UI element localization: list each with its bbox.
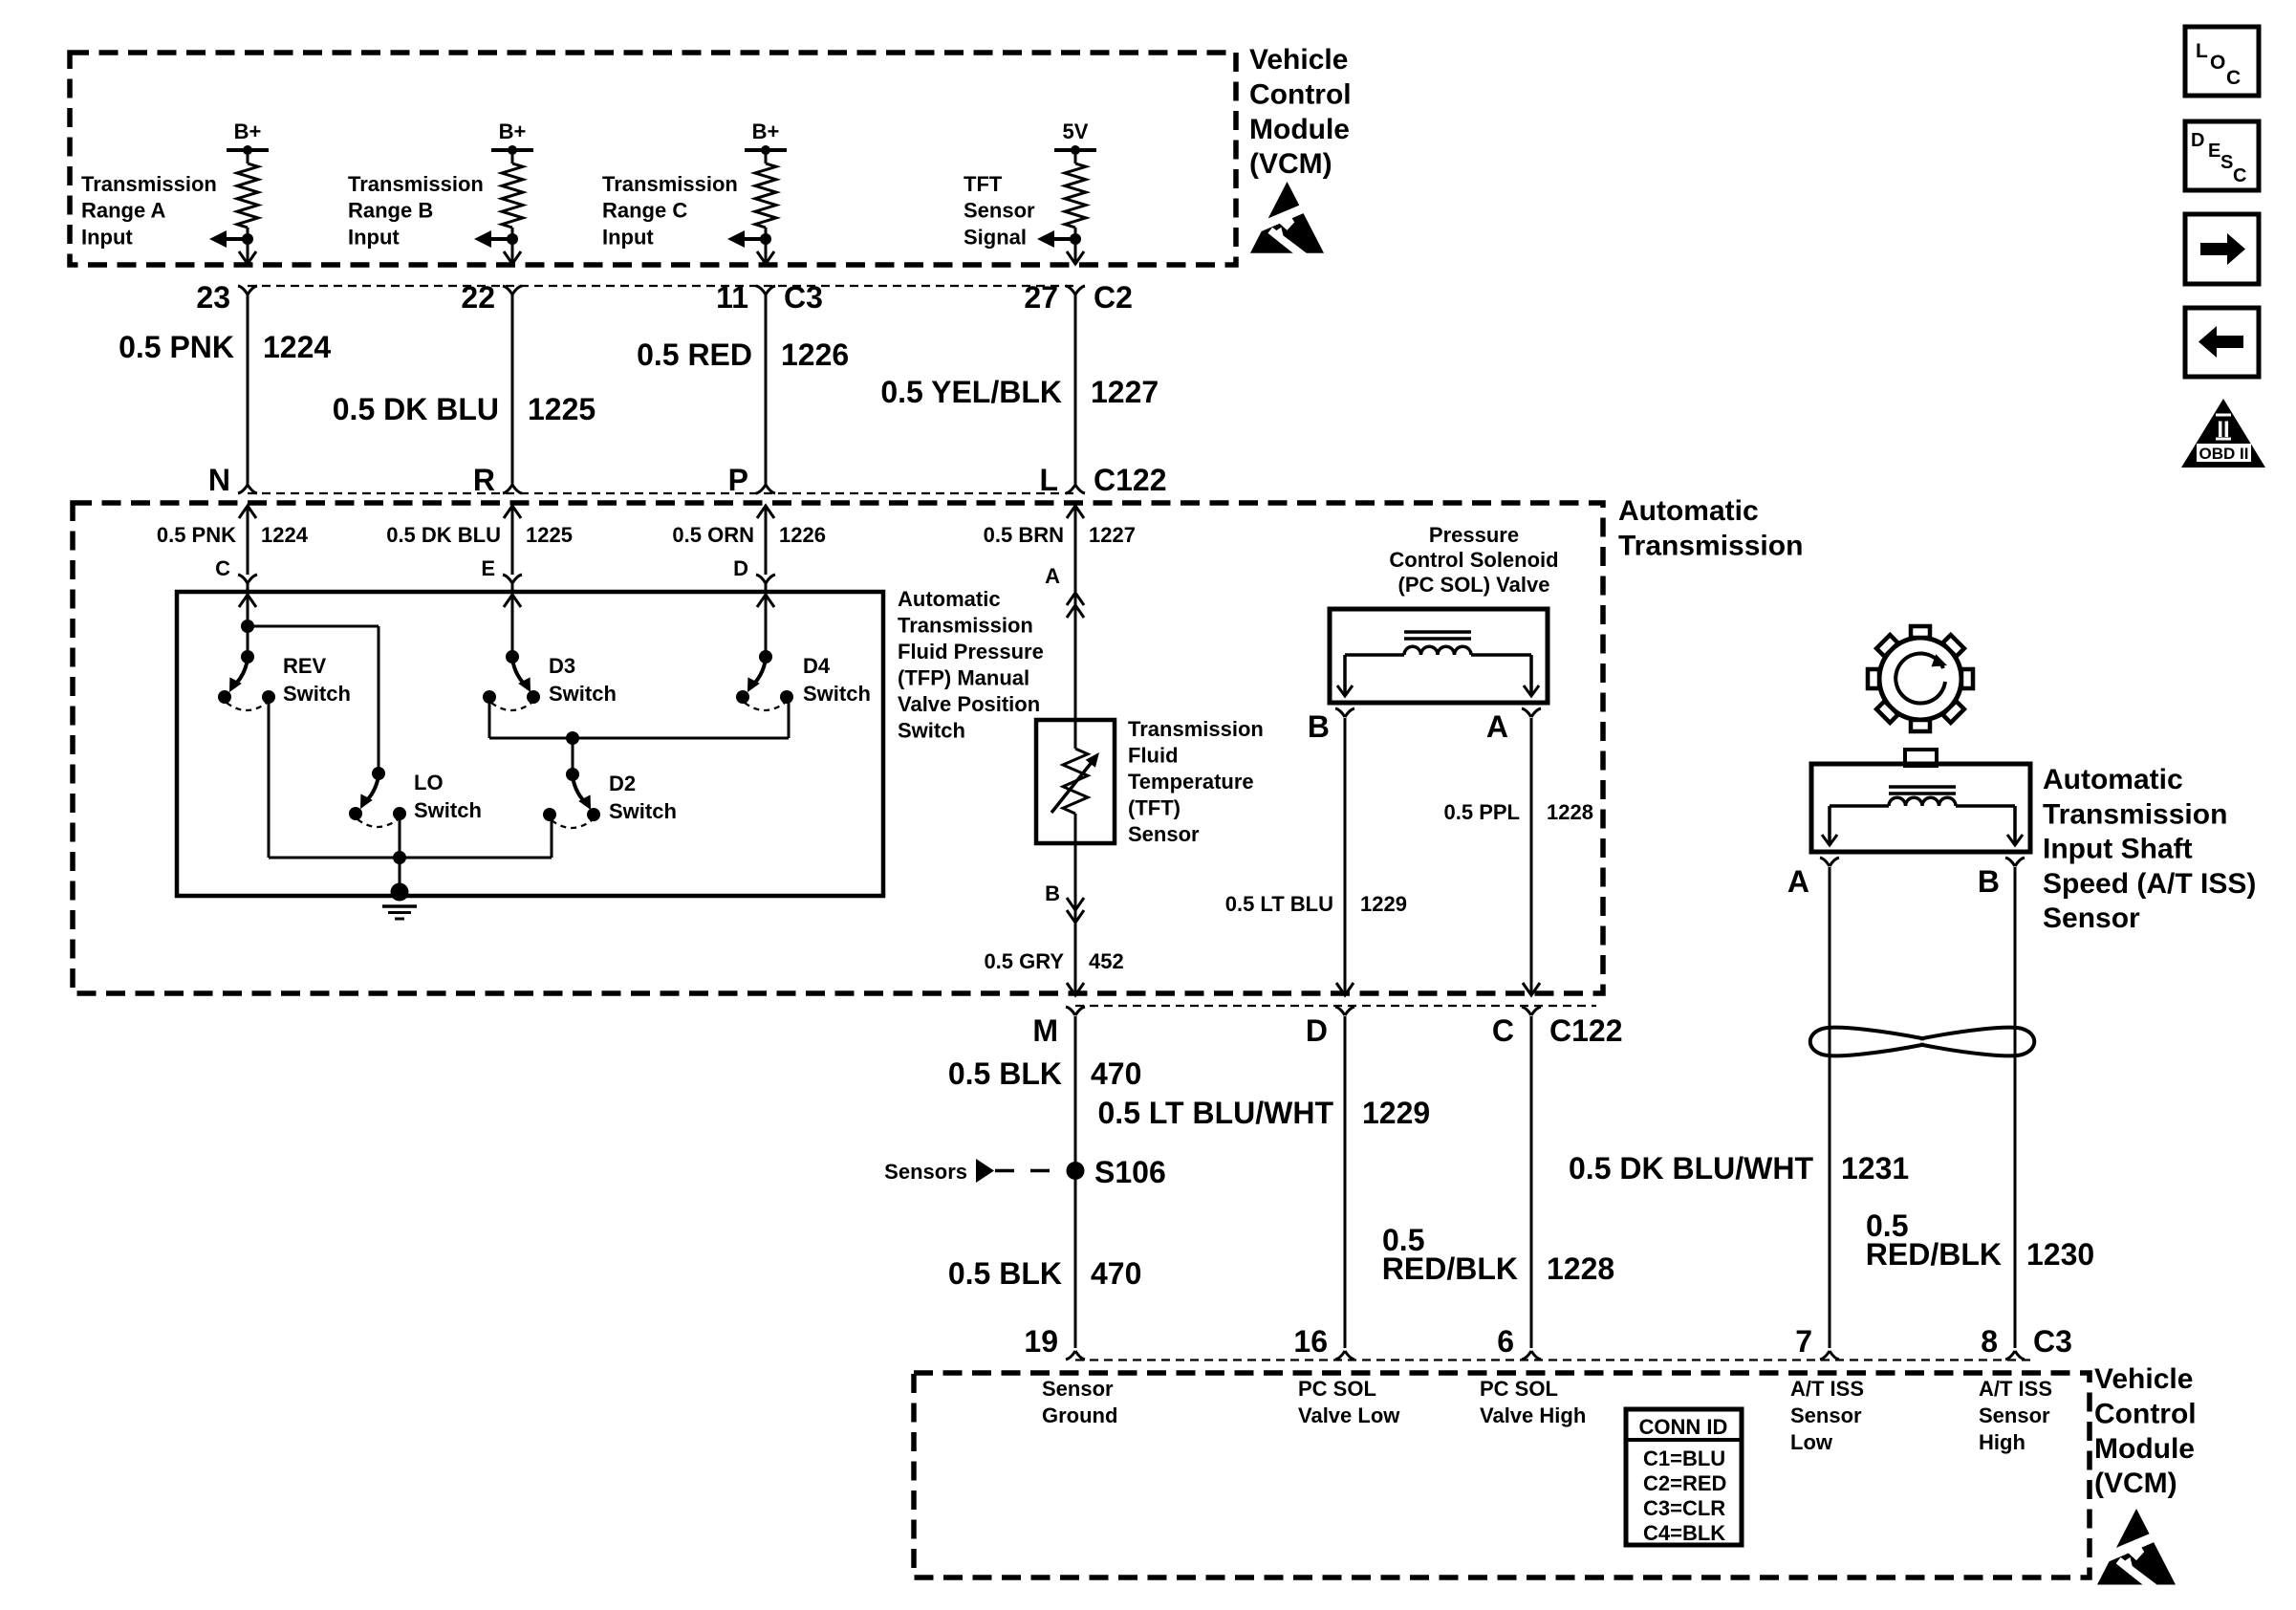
svg-text:Control: Control: [2094, 1398, 2197, 1429]
ISS pin letter B: [1978, 864, 2000, 899]
wire 1228 (PC SOL valve high): [1530, 1016, 1533, 1348]
5V supply bar with junction (column 4): [1054, 145, 1096, 155]
switch D4: [736, 650, 871, 710]
svg-text:Switch: Switch: [898, 719, 965, 743]
wire exit chevron into connector (column 2): [504, 251, 521, 264]
svg-text:Ground: Ground: [1042, 1403, 1117, 1427]
svg-text:C: C: [215, 556, 230, 580]
svg-text:23: 23: [196, 280, 230, 315]
svg-text:D: D: [2191, 130, 2204, 151]
icon back arrow box: [2185, 308, 2259, 377]
wire 470 (sensor ground): [1074, 1016, 1077, 1348]
PC SOL pin letter A: [1486, 709, 1508, 744]
sensor A/T ISS (inductive pickup): [1811, 764, 2030, 852]
TFT sensor pin letter A: [1045, 564, 1060, 588]
svg-text:(TFP) Manual: (TFP) Manual: [898, 666, 1029, 690]
svg-text:D: D: [1306, 1013, 1328, 1048]
in-box wire label 0.5 LT BLU 1229: [1225, 892, 1407, 916]
automatic transmission dashed box: [73, 503, 1603, 993]
pin number 11: [716, 280, 748, 315]
connector name C122 (bottom): [1549, 1013, 1623, 1048]
svg-text:High: High: [1979, 1430, 2025, 1454]
svg-text:Switch: Switch: [549, 682, 617, 706]
svg-text:Range B: Range B: [348, 199, 433, 223]
svg-text:0.5 ORN: 0.5 ORN: [672, 523, 754, 547]
svg-text:1230: 1230: [2026, 1237, 2094, 1272]
wire 1229 (PC SOL valve low): [1344, 1016, 1347, 1348]
wire label 0.5 BLK 470 (upper): [948, 1056, 1142, 1091]
connector pin 27 mark: [1066, 286, 1085, 294]
ground: [382, 883, 417, 920]
svg-text:C1=BLU: C1=BLU: [1643, 1447, 1725, 1470]
svg-text:Sensor: Sensor: [1128, 822, 1200, 846]
wire to ground: [399, 858, 401, 891]
svg-text:0.5 YEL/BLK: 0.5 YEL/BLK: [880, 375, 1062, 409]
svg-text:Sensor: Sensor: [1790, 1403, 1862, 1427]
svg-text:7: 7: [1795, 1324, 1812, 1359]
svg-text:Sensor: Sensor: [1042, 1377, 1114, 1401]
wire label 0.5 PNK 1224: [119, 330, 331, 364]
B+ supply bar with junction (column 1): [227, 145, 269, 155]
label Vehicle Control Module (VCM) top: [1249, 44, 1352, 180]
thermistor TFT: [1051, 720, 1099, 843]
svg-text:B+: B+: [234, 120, 262, 143]
TFP pin letter E: [481, 556, 495, 580]
label A/T ISS Sensor Low: [1790, 1377, 1864, 1454]
svg-text:A/T ISS: A/T ISS: [1979, 1377, 2052, 1401]
node 5V supply label (column 4): [1063, 120, 1089, 143]
in-box wire label 0.5 ORN 1226: [672, 523, 826, 547]
resistor pull-up R2: [502, 150, 523, 265]
PC SOL pin letter B: [1308, 709, 1330, 744]
resistor pull-up R1: [237, 150, 258, 265]
wire 1229 (PC SOL B down): [1344, 718, 1347, 995]
svg-text:REV: REV: [283, 654, 327, 678]
label PC SOL Valve Low: [1298, 1377, 1400, 1427]
svg-text:1227: 1227: [1089, 523, 1136, 547]
svg-text:E: E: [2208, 141, 2220, 162]
svg-text:S106: S106: [1094, 1155, 1166, 1189]
label A/T ISS Sensor High: [1979, 1377, 2052, 1454]
wire label 0.5 RED 1226: [637, 337, 849, 372]
icon DESC box: [2185, 121, 2259, 190]
wire label 0.5 YEL/BLK 1227: [880, 375, 1159, 409]
svg-text:N: N: [208, 463, 230, 497]
B+ supply bar with junction (column 2): [491, 145, 533, 155]
pin number 22: [461, 280, 495, 315]
svg-text:1226: 1226: [779, 523, 826, 547]
interconnect wire D3-D2-D4: [489, 737, 789, 740]
pin letter N: [208, 463, 230, 497]
svg-text:A: A: [1045, 564, 1060, 588]
svg-text:O: O: [2210, 52, 2225, 74]
pin number 8: [1981, 1324, 1998, 1359]
svg-text:C122: C122: [1549, 1013, 1623, 1048]
B+ supply bar with junction (column 3): [745, 145, 787, 155]
svg-text:Module: Module: [1249, 114, 1350, 145]
connector pin 11 mark: [756, 286, 775, 294]
svg-text:Valve Position: Valve Position: [898, 692, 1040, 716]
vehicle control module (VCM) bottom dashed box: [914, 1373, 2090, 1577]
pin letter M: [1032, 1013, 1058, 1048]
label Automatic Transmission Fluid Pressure (TFP) Manual Valve Position Switch: [898, 587, 1044, 743]
pin letter P: [728, 463, 748, 497]
svg-text:8: 8: [1981, 1324, 1998, 1359]
label PC SOL Valve High: [1480, 1377, 1586, 1427]
signal branch arrow (column 1): [209, 230, 253, 248]
connector pin L wire-end mark: [1066, 485, 1085, 493]
switch REV: [218, 650, 351, 710]
svg-text:(VCM): (VCM): [1249, 148, 1332, 180]
svg-text:Switch: Switch: [414, 798, 482, 822]
signal branch arrow (column 4): [1037, 230, 1081, 248]
wire 452 below TFT sensor: [1074, 843, 1077, 995]
svg-text:Low: Low: [1790, 1430, 1833, 1454]
svg-text:L: L: [1039, 463, 1058, 497]
svg-text:6: 6: [1497, 1324, 1514, 1359]
wire into TFP switch (E): [511, 506, 514, 575]
connector pin C mark: [1522, 1007, 1541, 1015]
in-box wire label 0.5 PPL 1228: [1444, 800, 1593, 824]
pin letter R: [473, 463, 495, 497]
svg-text:16: 16: [1293, 1324, 1328, 1359]
label Automatic Transmission Input Shaft Speed (A/T ISS) Sensor: [2043, 764, 2256, 934]
svg-text:Speed (A/T ISS): Speed (A/T ISS): [2043, 868, 2256, 900]
svg-text:Control Solenoid: Control Solenoid: [1389, 548, 1558, 572]
label Transmission Fluid Temperature (TFT) Sensor: [1128, 717, 1264, 846]
wire label 0.5 BLK 470 (lower): [948, 1256, 1142, 1291]
svg-text:1229: 1229: [1362, 1096, 1430, 1130]
wire REV contact to ground bus: [268, 697, 271, 858]
svg-text:S: S: [2220, 152, 2233, 173]
svg-text:P: P: [728, 463, 748, 497]
in-box wire label 0.5 GRY 452: [984, 949, 1123, 973]
svg-text:D: D: [733, 556, 748, 580]
svg-text:27: 27: [1024, 280, 1058, 315]
svg-text:D4: D4: [803, 654, 831, 678]
arrow out of transmission (pin D): [1336, 983, 1354, 995]
pin number 6: [1497, 1324, 1514, 1359]
connector row C122 (bottom) dashed line: [1075, 1005, 1596, 1007]
svg-text:B: B: [1308, 709, 1330, 744]
connector pin P wire-end mark: [756, 485, 775, 493]
TFP entry arrow (E): [504, 583, 521, 658]
wire exit chevron into connector (column 1): [239, 251, 256, 264]
svg-text:D3: D3: [549, 654, 575, 678]
inline double chevron (TFT wire down): [1067, 898, 1084, 923]
svg-text:CONN ID: CONN ID: [1639, 1415, 1728, 1439]
svg-text:0.5 PNK: 0.5 PNK: [157, 523, 236, 547]
node B+ supply label (column 1): [234, 120, 262, 143]
svg-text:Range A: Range A: [81, 199, 166, 223]
svg-text:Vehicle: Vehicle: [1249, 44, 1348, 76]
splice S106: [884, 1155, 1166, 1189]
solenoid PC SOL valve: [1330, 609, 1548, 703]
svg-text:A: A: [1486, 709, 1508, 744]
switch D3: [483, 650, 617, 710]
svg-text:Transmission: Transmission: [1618, 530, 1803, 561]
connector name C3 (bottom): [2033, 1324, 2072, 1359]
svg-text:Switch: Switch: [283, 682, 351, 706]
svg-text:1224: 1224: [263, 330, 331, 364]
junction node (D2 feed): [566, 731, 579, 745]
connector pin 16 wire-end mark: [1335, 1351, 1354, 1360]
svg-text:Switch: Switch: [609, 799, 677, 823]
svg-text:Sensor: Sensor: [964, 199, 1035, 223]
svg-text:0.5 BRN: 0.5 BRN: [984, 523, 1064, 547]
connector pin 8 wire-end mark: [2005, 1351, 2025, 1360]
svg-text:(TFT): (TFT): [1128, 796, 1180, 820]
TFP entry connector mark (C): [238, 575, 257, 583]
svg-text:Transmission: Transmission: [898, 614, 1033, 638]
svg-text:Module: Module: [2094, 1433, 2195, 1465]
TFP entry connector mark (D): [756, 575, 775, 583]
svg-text:RED/BLK: RED/BLK: [1382, 1251, 1518, 1286]
svg-text:OBD II: OBD II: [2199, 445, 2249, 463]
wire exit chevron into connector (column 3): [757, 251, 774, 264]
svg-text:1224: 1224: [261, 523, 309, 547]
signal branch arrow (column 3): [727, 230, 771, 248]
arrow into transmission (pin N): [239, 506, 256, 518]
svg-text:Fluid Pressure: Fluid Pressure: [898, 640, 1044, 664]
svg-text:Transmission: Transmission: [348, 172, 484, 196]
svg-text:Vehicle: Vehicle: [2094, 1363, 2193, 1395]
svg-text:(PC SOL) Valve: (PC SOL) Valve: [1398, 573, 1550, 597]
svg-text:0.5 DK BLU/WHT: 0.5 DK BLU/WHT: [1569, 1151, 1813, 1186]
svg-text:1228: 1228: [1547, 1251, 1614, 1286]
svg-text:0.5 RED: 0.5 RED: [637, 337, 752, 372]
wire label 0.5 DK BLU 1225: [333, 392, 596, 426]
svg-text:E: E: [481, 556, 495, 580]
svg-text:B: B: [1978, 864, 2000, 899]
TFT sensor box: [1036, 720, 1115, 843]
connector name C122 (top): [1094, 463, 1167, 497]
svg-text:0.5 BLK: 0.5 BLK: [948, 1256, 1062, 1291]
svg-text:Input: Input: [602, 225, 654, 249]
wire LO contact down: [399, 814, 401, 858]
svg-text:Automatic: Automatic: [2043, 764, 2183, 795]
TFP pin letter D: [733, 556, 748, 580]
arrow into transmission (pin R): [504, 506, 521, 518]
node B+ supply label (column 3): [752, 120, 780, 143]
twisted pair symbol: [1810, 1028, 2035, 1056]
connector pin 7 wire-end mark: [1820, 1351, 1839, 1360]
TFT sensor pin letter B: [1045, 881, 1060, 905]
signal branch arrow (column 2): [474, 230, 518, 248]
svg-text:RED/BLK: RED/BLK: [1866, 1237, 2002, 1272]
svg-text:1225: 1225: [528, 392, 596, 426]
connector pin M mark: [1066, 1007, 1085, 1015]
pin letter D: [1306, 1013, 1328, 1048]
svg-text:C4=BLK: C4=BLK: [1643, 1521, 1725, 1545]
svg-text:Temperature: Temperature: [1128, 770, 1254, 794]
svg-text:1231: 1231: [1841, 1151, 1909, 1186]
connector pin D mark: [1335, 1007, 1354, 1015]
pin letter C: [1492, 1013, 1514, 1048]
resistor pull-up R3: [755, 150, 776, 265]
svg-text:0.5 DK BLU: 0.5 DK BLU: [333, 392, 499, 426]
ESD warning symbol (top VCM): [1250, 182, 1324, 272]
TFP entry arrow (C): [239, 583, 256, 658]
svg-text:C122: C122: [1094, 463, 1167, 497]
label Transmission Range B Input: [348, 172, 484, 249]
pin number 23: [196, 280, 230, 315]
wire D2 contact down: [551, 814, 553, 858]
wire 1227 into TFT sensor: [1074, 506, 1077, 720]
label Transmission Range C Input: [602, 172, 738, 249]
svg-text:Sensors: Sensors: [884, 1160, 967, 1184]
svg-text:0.5 LT BLU/WHT: 0.5 LT BLU/WHT: [1098, 1096, 1334, 1130]
svg-text:Transmission: Transmission: [1128, 717, 1264, 741]
svg-text:0.5 BLK: 0.5 BLK: [948, 1056, 1062, 1091]
connector name C2: [1094, 280, 1133, 315]
ESD warning symbol (bottom VCM): [2097, 1509, 2176, 1606]
pin number 19: [1024, 1324, 1058, 1359]
wire segment 1226 (VCM to C122): [765, 294, 768, 486]
svg-text:Input Shaft: Input Shaft: [2043, 834, 2193, 865]
connector pin 19 wire-end mark: [1066, 1351, 1085, 1360]
svg-text:Control: Control: [1249, 78, 1352, 110]
arrow out of transmission (pin M): [1067, 983, 1084, 995]
junction node (wire C branch): [241, 620, 254, 633]
svg-text:0.5 DK BLU: 0.5 DK BLU: [386, 523, 501, 547]
svg-text:Automatic: Automatic: [898, 587, 1001, 611]
node B+ supply label (column 2): [499, 120, 527, 143]
pin number 7: [1795, 1324, 1812, 1359]
svg-text:L: L: [2196, 40, 2208, 62]
connector mark below ISS (pin A): [1820, 858, 1839, 866]
wire into TFP switch (D): [765, 506, 768, 575]
svg-text:0.5 GRY: 0.5 GRY: [984, 949, 1064, 973]
svg-text:1226: 1226: [781, 337, 849, 372]
label Transmission Range A Input: [81, 172, 217, 249]
svg-text:C2: C2: [1094, 280, 1133, 315]
arrow into transmission (pin P): [757, 506, 774, 518]
connector pin N wire-end mark: [238, 485, 257, 493]
svg-text:Range C: Range C: [602, 199, 687, 223]
svg-text:Input: Input: [348, 225, 400, 249]
svg-text:19: 19: [1024, 1324, 1058, 1359]
svg-text:(VCM): (VCM): [2094, 1468, 2177, 1499]
svg-text:A: A: [1787, 864, 1809, 899]
wire segment 1225 (VCM to C122): [511, 294, 514, 486]
svg-text:Sensor: Sensor: [2043, 903, 2140, 934]
svg-text:PC SOL: PC SOL: [1480, 1377, 1558, 1401]
svg-text:TFT: TFT: [964, 172, 1003, 196]
ISS sensor mounting tab: [1905, 750, 1937, 766]
svg-text:R: R: [473, 463, 495, 497]
svg-text:Transmission: Transmission: [81, 172, 217, 196]
svg-text:Valve Low: Valve Low: [1298, 1403, 1400, 1427]
svg-text:Input: Input: [81, 225, 133, 249]
wire 1231 (ISS low): [1829, 867, 1831, 1348]
pin letter L: [1039, 463, 1058, 497]
svg-text:D2: D2: [609, 772, 636, 795]
svg-text:5V: 5V: [1063, 120, 1089, 143]
svg-text:0.5 PNK: 0.5 PNK: [119, 330, 234, 364]
svg-text:C: C: [2226, 67, 2241, 89]
wire segment 1227 (VCM to C122): [1074, 294, 1077, 486]
wire into TFP switch (C): [247, 506, 249, 575]
connector pin 23 mark: [238, 286, 257, 294]
in-box wire label 0.5 DK BLU 1225: [386, 523, 573, 547]
label Automatic Transmission: [1618, 495, 1803, 561]
label Sensor Ground: [1042, 1377, 1117, 1427]
arrow out of transmission (pin C): [1523, 983, 1540, 995]
svg-text:Valve High: Valve High: [1480, 1403, 1586, 1427]
svg-text:C: C: [1492, 1013, 1514, 1048]
wire label 0.5 DK BLU/WHT 1231: [1569, 1151, 1909, 1186]
svg-text:B+: B+: [752, 120, 780, 143]
connector mark below PC SOL (pin A): [1522, 708, 1541, 717]
wire D3 contact down: [488, 697, 491, 738]
ground bus wire: [269, 857, 552, 859]
wire label 0.5 RED/BLK 1228: [1382, 1223, 1614, 1286]
arrow into transmission (pin L): [1067, 506, 1084, 518]
connector pin 22 mark: [503, 286, 522, 294]
svg-text:Transmission: Transmission: [602, 172, 738, 196]
connector pin R wire-end mark: [503, 485, 522, 493]
svg-text:Transmission: Transmission: [2043, 798, 2227, 830]
svg-text:Signal: Signal: [964, 225, 1027, 249]
vehicle control module (VCM) dashed box: [70, 53, 1236, 265]
resistor pull-up R4: [1065, 150, 1086, 265]
svg-text:C3: C3: [2033, 1324, 2072, 1359]
svg-text:0.5 PPL: 0.5 PPL: [1444, 800, 1520, 824]
svg-text:C: C: [2233, 165, 2246, 186]
svg-text:1225: 1225: [526, 523, 573, 547]
svg-text:1228: 1228: [1547, 800, 1593, 824]
label Vehicle Control Module (VCM) bottom: [2094, 1363, 2197, 1499]
label Pressure Control Solenoid (PC SOL) Valve: [1389, 523, 1558, 597]
wire label 0.5 RED/BLK 1230: [1866, 1208, 2094, 1272]
svg-text:Switch: Switch: [803, 682, 871, 706]
gear icon (input shaft): [1868, 626, 1973, 731]
svg-text:470: 470: [1091, 1256, 1141, 1291]
svg-text:C2=RED: C2=RED: [1643, 1471, 1726, 1495]
ISS pin letter A: [1787, 864, 1809, 899]
svg-text:Fluid: Fluid: [1128, 744, 1179, 768]
connector mark below ISS (pin B): [2005, 858, 2025, 866]
TFP entry arrow (D): [757, 583, 774, 658]
svg-text:22: 22: [461, 280, 495, 315]
wire segment 1224 (VCM to C122): [247, 294, 249, 486]
wire D4 contact down: [788, 697, 791, 738]
svg-text:Automatic: Automatic: [1618, 495, 1759, 527]
connector row C2/C3 dashed line: [248, 285, 1079, 287]
connector mark below PC SOL (pin B): [1335, 708, 1354, 717]
in-box wire label 0.5 PNK 1224: [157, 523, 309, 547]
pin number 16: [1293, 1324, 1328, 1359]
svg-text:1229: 1229: [1360, 892, 1407, 916]
svg-text:470: 470: [1091, 1056, 1141, 1091]
connector row C122 dashed line: [248, 492, 1079, 494]
wire junction to D2 pivot: [572, 738, 574, 774]
svg-text:M: M: [1032, 1013, 1058, 1048]
TFP entry connector mark (E): [503, 575, 522, 583]
svg-text:1227: 1227: [1091, 375, 1159, 409]
connector row C3 (bottom) dashed line: [1075, 1359, 2036, 1360]
svg-text:Pressure: Pressure: [1429, 523, 1519, 547]
svg-text:C3: C3: [784, 280, 823, 315]
svg-text:PC SOL: PC SOL: [1298, 1377, 1376, 1401]
svg-text:B: B: [1045, 881, 1060, 905]
TFP manual valve position switch box: [177, 592, 883, 896]
icon OBD II triangle: [2181, 399, 2265, 468]
svg-text:0.5 LT BLU: 0.5 LT BLU: [1225, 892, 1333, 916]
wire 1230 (ISS high): [2014, 867, 2017, 1348]
wire branch to LO switch: [248, 626, 379, 773]
